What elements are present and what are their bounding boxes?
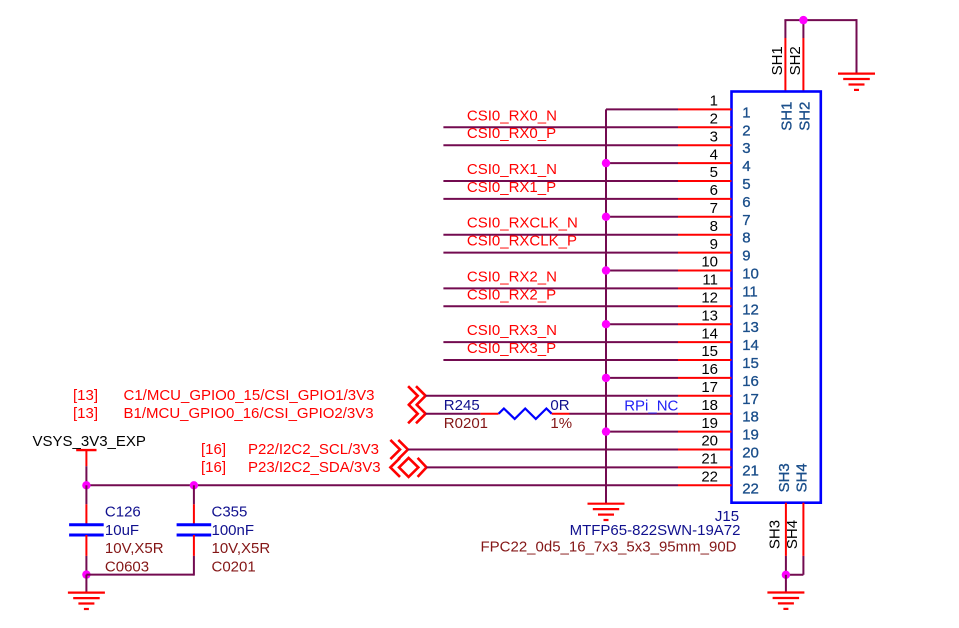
ground shield top <box>838 72 875 74</box>
svg-text:4: 4 <box>742 158 750 175</box>
pin 12 stub <box>678 305 732 307</box>
svg-text:7: 7 <box>710 200 718 217</box>
pin 5 stub <box>678 180 732 182</box>
svg-text:C0603: C0603 <box>105 558 149 575</box>
svg-text:3: 3 <box>742 140 750 157</box>
svg-text:SH1: SH1 <box>779 102 796 131</box>
svg-text:CSI0_RX0_P: CSI0_RX0_P <box>467 125 556 142</box>
svg-text:[13]: [13] <box>73 387 98 404</box>
node bus junction pin 16 <box>602 374 610 382</box>
wire net CSI_GPIO1 <box>426 395 678 397</box>
port chevron pin 20 <box>398 440 408 459</box>
capacitor C126 top pin <box>85 504 87 524</box>
svg-text:22: 22 <box>701 469 718 486</box>
connector J15 body <box>732 92 821 503</box>
wire net VSYS_3V3_EXP to pin 22 <box>86 484 678 486</box>
svg-text:FPC22_0d5_16_7x3_5x3_95mm_90D: FPC22_0d5_16_7x3_5x3_95mm_90D <box>480 539 736 556</box>
svg-text:1%: 1% <box>550 415 572 432</box>
node C355 top junction <box>190 481 198 489</box>
svg-text:RPi_NC: RPi_NC <box>624 397 678 414</box>
wire net CSI0_RXCLK_P <box>443 252 678 254</box>
node VSYS junction <box>82 481 90 489</box>
svg-text:[16]: [16] <box>201 459 226 476</box>
svg-text:B1/MCU_GPIO0_16/CSI_GPIO2/3V3: B1/MCU_GPIO0_16/CSI_GPIO2/3V3 <box>124 405 374 422</box>
svg-text:9: 9 <box>742 248 750 265</box>
svg-text:CSI0_RX3_N: CSI0_RX3_N <box>467 322 557 339</box>
node shield bottom junction <box>782 571 790 579</box>
svg-text:19: 19 <box>742 427 759 444</box>
svg-text:1: 1 <box>710 93 718 110</box>
svg-text:CSI0_RX0_N: CSI0_RX0_N <box>467 107 557 124</box>
svg-text:14: 14 <box>742 337 759 354</box>
svg-text:SH4: SH4 <box>784 520 801 549</box>
wire net CSI0_RX1_N <box>443 180 678 182</box>
pin 3 stub <box>678 144 732 146</box>
pin 14 stub <box>678 341 732 343</box>
svg-text:4: 4 <box>710 146 718 163</box>
svg-text:CSI0_RX1_N: CSI0_RX1_N <box>467 161 557 178</box>
svg-text:SH2: SH2 <box>797 102 814 131</box>
wire VSYS stem <box>85 466 87 485</box>
node C126 ground junction <box>82 570 90 578</box>
wire C355 to ground rail <box>193 556 195 576</box>
svg-text:21: 21 <box>742 462 759 479</box>
port chevron pin 18 <box>416 404 426 423</box>
wire SH1 drop <box>784 20 786 38</box>
wire bus to pin 1 <box>606 108 678 110</box>
power symbol VSYS_3V3_EXP <box>76 449 96 451</box>
wire net CSI0_RX3_P <box>443 359 678 361</box>
wire net I2C2_SDA <box>427 466 679 468</box>
pin 4 stub <box>678 162 732 164</box>
svg-text:5: 5 <box>742 176 750 193</box>
wire net I2C2_SCL <box>408 449 678 451</box>
wire SH4 to SH3 <box>786 574 804 576</box>
svg-text:P22/I2C2_SCL/3V3: P22/I2C2_SCL/3V3 <box>248 441 379 458</box>
svg-text:18: 18 <box>701 397 718 414</box>
svg-text:VSYS_3V3_EXP: VSYS_3V3_EXP <box>33 433 146 450</box>
svg-text:R0201: R0201 <box>444 415 488 432</box>
wire top shield rail <box>784 19 856 21</box>
wire net CSI0_RX2_N <box>443 287 678 289</box>
pin 13 stub <box>678 323 732 325</box>
wire pin22 rail to C355 <box>193 485 195 504</box>
svg-text:10: 10 <box>701 254 718 271</box>
wire ground rail C126-C355 <box>86 574 193 576</box>
node bus junction pin 7 <box>602 213 610 221</box>
svg-text:CSI0_RX1_P: CSI0_RX1_P <box>467 179 556 196</box>
wire net CSI0_RX3_N <box>443 341 678 343</box>
svg-text:CSI0_RXCLK_N: CSI0_RXCLK_N <box>467 215 578 232</box>
svg-text:15: 15 <box>742 355 759 372</box>
pin 20 stub <box>678 449 732 451</box>
svg-text:C355: C355 <box>212 504 248 521</box>
svg-text:11: 11 <box>702 272 718 289</box>
pin 17 stub <box>678 395 732 397</box>
node bus junction pin 10 <box>602 266 610 274</box>
pin 18 stub <box>678 413 732 415</box>
pin 21 stub <box>678 466 732 468</box>
svg-text:10V,X5R: 10V,X5R <box>212 540 271 557</box>
wire ground bus vertical <box>605 109 607 503</box>
svg-text:5: 5 <box>710 164 718 181</box>
svg-text:20: 20 <box>742 445 759 462</box>
svg-text:R245: R245 <box>444 397 480 414</box>
svg-text:SH3: SH3 <box>776 463 793 492</box>
wire bus to pin 7 <box>606 216 678 218</box>
pin 11 stub <box>678 287 732 289</box>
svg-text:10V,X5R: 10V,X5R <box>105 540 164 557</box>
svg-text:14: 14 <box>701 325 718 342</box>
svg-text:100nF: 100nF <box>212 522 255 539</box>
ground left <box>68 591 105 593</box>
ground bus bottom <box>588 503 625 505</box>
svg-text:6: 6 <box>742 194 750 211</box>
svg-text:19: 19 <box>701 415 718 432</box>
resistor R245 zigzag <box>499 409 552 419</box>
wire C126 to ground rail <box>85 556 87 575</box>
resistor R245 right pin <box>552 413 570 415</box>
svg-text:17: 17 <box>701 379 718 396</box>
svg-text:8: 8 <box>742 230 750 247</box>
capacitor C355 bottom pin <box>193 535 195 556</box>
svg-text:MTFP65-822SWN-19A72: MTFP65-822SWN-19A72 <box>570 522 741 539</box>
pin SH1 stub <box>784 38 786 92</box>
svg-text:2: 2 <box>742 122 750 139</box>
svg-text:6: 6 <box>710 182 718 199</box>
svg-text:CSI0_RX2_N: CSI0_RX2_N <box>467 268 557 285</box>
ground shield bottom <box>767 591 804 593</box>
svg-text:[16]: [16] <box>201 441 226 458</box>
wire net CSI0_RX2_P <box>443 305 678 307</box>
capacitor C126 plates <box>69 523 104 526</box>
svg-text:9: 9 <box>710 236 718 253</box>
port bidirectional symbol pin 21 <box>390 458 400 477</box>
wire resistor to pin 18 <box>570 413 679 415</box>
node bus junction pin 13 <box>602 320 610 328</box>
svg-text:8: 8 <box>710 218 718 235</box>
pin 8 stub <box>678 234 732 236</box>
pin 2 stub <box>678 126 732 128</box>
svg-text:12: 12 <box>701 290 718 307</box>
svg-text:CSI0_RX3_P: CSI0_RX3_P <box>467 340 556 357</box>
wire bus to pin 16 <box>606 377 678 379</box>
svg-text:2: 2 <box>710 111 718 128</box>
svg-text:C126: C126 <box>105 504 141 521</box>
svg-text:17: 17 <box>742 391 759 408</box>
resistor R245 left pin <box>480 413 498 415</box>
wire bus to pin 4 <box>606 162 678 164</box>
svg-text:11: 11 <box>742 283 758 300</box>
svg-text:CSI0_RX2_P: CSI0_RX2_P <box>467 286 556 303</box>
wire SH3 down <box>785 556 787 575</box>
svg-text:10: 10 <box>742 266 759 283</box>
wire C126 ground stem <box>85 575 87 593</box>
pin 10 stub <box>678 270 732 272</box>
wire shield bottom stem <box>785 575 787 593</box>
svg-text:P23/I2C2_SDA/3V3: P23/I2C2_SDA/3V3 <box>248 459 381 476</box>
wire pin22 rail to C126 <box>85 485 87 504</box>
pin 7 stub <box>678 216 732 218</box>
svg-text:0R: 0R <box>550 397 569 414</box>
capacitor C355 top pin <box>193 504 195 524</box>
wire bus to pin 10 <box>606 270 678 272</box>
svg-text:16: 16 <box>701 361 718 378</box>
pin SH4 stub <box>802 503 804 556</box>
svg-text:1: 1 <box>742 104 750 121</box>
node bus junction pin 19 <box>602 427 610 435</box>
wire shield to ground <box>856 19 858 73</box>
wire bus to pin 19 <box>606 431 678 433</box>
svg-text:[13]: [13] <box>73 405 98 422</box>
svg-text:12: 12 <box>742 301 759 318</box>
capacitor C355 plates <box>177 523 212 526</box>
pin 6 stub <box>678 198 732 200</box>
pin 19 stub <box>678 431 732 433</box>
svg-text:10uF: 10uF <box>105 522 139 539</box>
svg-text:16: 16 <box>742 373 759 390</box>
wire net CSI0_RX1_P <box>443 198 678 200</box>
wire net CSI0_RX0_P <box>443 144 678 146</box>
svg-text:C1/MCU_GPIO0_15/CSI_GPIO1/3V3: C1/MCU_GPIO0_15/CSI_GPIO1/3V3 <box>124 387 375 404</box>
svg-text:18: 18 <box>742 409 759 426</box>
wire net CSI0_RX0_N <box>443 126 678 128</box>
svg-text:20: 20 <box>701 433 718 450</box>
node bus junction pin 4 <box>602 159 610 167</box>
pin 1 stub <box>678 108 732 110</box>
svg-text:SH3: SH3 <box>767 520 784 549</box>
svg-text:SH2: SH2 <box>787 46 804 75</box>
svg-text:3: 3 <box>710 128 718 145</box>
wire SH2 drop <box>802 20 804 38</box>
pin 9 stub <box>678 252 732 254</box>
pin SH2 stub <box>802 38 804 92</box>
svg-text:SH4: SH4 <box>794 463 811 492</box>
svg-text:13: 13 <box>701 307 718 324</box>
wire net CSI0_RXCLK_N <box>443 234 678 236</box>
pin 22 stub <box>678 484 732 486</box>
pin SH3 stub <box>785 503 787 556</box>
capacitor C126 bottom pin <box>85 535 87 556</box>
pin 16 stub <box>678 377 732 379</box>
svg-text:15: 15 <box>701 343 718 360</box>
svg-text:21: 21 <box>701 451 718 468</box>
pin 15 stub <box>678 359 732 361</box>
svg-text:13: 13 <box>742 319 759 336</box>
svg-text:C0201: C0201 <box>212 558 256 575</box>
wire SH4 down <box>802 556 804 575</box>
wire chevron to resistor R245 <box>426 413 481 415</box>
svg-text:7: 7 <box>742 212 750 229</box>
node shield junction <box>799 16 807 24</box>
wire bus to pin 13 <box>606 323 678 325</box>
port chevron pin 17 <box>416 386 426 405</box>
svg-text:CSI0_RXCLK_P: CSI0_RXCLK_P <box>467 233 577 250</box>
svg-text:SH1: SH1 <box>769 46 786 75</box>
svg-text:22: 22 <box>742 480 759 497</box>
